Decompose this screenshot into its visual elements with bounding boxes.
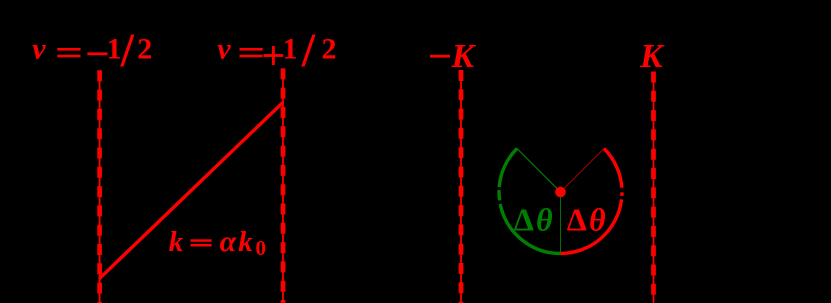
dashed line nu=-1/2 (thick dashes): [97, 70, 102, 303]
label -K: [430, 38, 477, 75]
svg-text:/: /: [301, 24, 316, 77]
green arc segment 135 to 175.3 deg: [499, 149, 517, 187]
svg-text:ν: ν: [32, 33, 46, 66]
svg-text:1: 1: [283, 33, 298, 66]
label nu = -1/2: [32, 24, 152, 77]
red arc segment 45 to 4 deg: [604, 149, 622, 188]
label nu = +1/2: [217, 24, 336, 77]
svg-text:ν: ν: [217, 33, 231, 66]
dashed line -K (thin core): [460, 70, 462, 303]
svg-text:Δ: Δ: [514, 201, 534, 237]
dashed line K (thin core): [653, 72, 655, 303]
label k = alpha k0: [169, 225, 266, 260]
svg-text:α: α: [220, 225, 237, 258]
svg-text:k: k: [238, 226, 253, 258]
dashed line nu=+1/2 (thin core): [282, 68, 284, 303]
svg-text:K: K: [451, 38, 477, 75]
svg-text:/: /: [120, 24, 135, 77]
green arc segment 191.2 to 270 deg: [500, 204, 560, 254]
svg-text:2: 2: [322, 33, 337, 66]
radius line down (270 deg): [560, 192, 562, 254]
dashed line -K (thick dashes): [459, 70, 464, 303]
diagonal line k = alpha k0: [99, 103, 283, 280]
svg-text:θ: θ: [589, 201, 606, 237]
green arc segment 178.1 to 187.85 deg: [497, 190, 501, 200]
svg-text:0: 0: [256, 236, 267, 260]
red arc segment -0.3 to -3.55 deg: [620, 192, 624, 195]
radius line to green arc start (135 deg): [517, 149, 561, 193]
svg-text:Δ: Δ: [567, 201, 587, 237]
label delta-theta red: [567, 201, 606, 237]
label delta-theta green: [514, 201, 553, 237]
svg-text:k: k: [169, 226, 184, 258]
red arc segment -6.8 to -90 deg: [561, 199, 622, 253]
svg-text:θ: θ: [536, 201, 553, 237]
svg-text:1: 1: [107, 33, 122, 66]
svg-text:K: K: [639, 38, 665, 75]
dashed line nu=-1/2 (thin core): [99, 70, 101, 303]
center dot: [555, 187, 566, 198]
dashed line K (thick dashes): [651, 72, 656, 303]
radius line to red arc start (45 deg): [561, 149, 605, 193]
dashed line nu=+1/2 (thick dashes): [281, 68, 286, 303]
svg-text:2: 2: [137, 33, 152, 66]
